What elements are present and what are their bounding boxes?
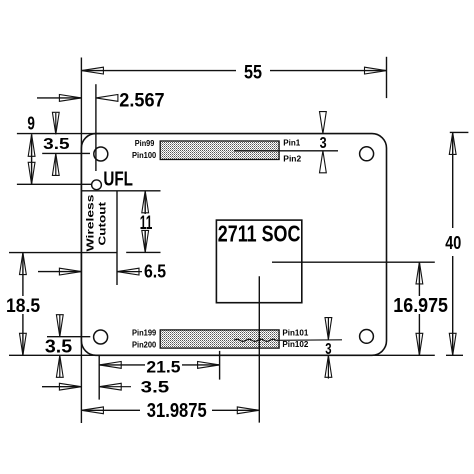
svg-text:Pin2: Pin2 [283, 154, 301, 163]
svg-text:3: 3 [325, 341, 331, 358]
dim 55 line [81, 70, 236, 72]
board bottom edge extension left [9, 354, 96, 356]
svg-text:Pin102: Pin102 [282, 340, 309, 349]
dim 16.975 line [418, 262, 420, 296]
mounting hole top-left [94, 147, 108, 161]
svg-text:Pin199: Pin199 [132, 329, 157, 338]
svg-text:18.5: 18.5 [6, 296, 40, 317]
wireless cutout top edge [81, 190, 160, 192]
svg-text:Cutout: Cutout [98, 201, 109, 245]
svg-text:3: 3 [320, 135, 327, 152]
extension line 21.5 right [219, 351, 221, 380]
dim 31.9875 line [81, 409, 140, 411]
UFL connector circle [92, 180, 102, 190]
svg-text:3.5: 3.5 [43, 136, 70, 153]
mounting hole bottom-left [94, 330, 108, 344]
SOC outline [216, 220, 301, 303]
dim 6.5 line [38, 271, 81, 273]
dim 3.5 top-left arrows [52, 112, 59, 134]
mounting hole top-right [360, 147, 374, 161]
dim 9 line [31, 134, 33, 184]
top connector strip hatched [160, 141, 279, 160]
svg-text:Wireless: Wireless [85, 194, 96, 252]
svg-text:16.975: 16.975 [393, 295, 448, 317]
dim 21.5 line [99, 364, 145, 366]
svg-text:Pin200: Pin200 [132, 340, 157, 349]
extension line 21.5 left [98, 355, 100, 399]
left extension line [80, 58, 82, 424]
svg-text:UFL: UFL [103, 169, 133, 191]
svg-text:Pin101: Pin101 [282, 328, 309, 337]
dim 40 line [452, 132, 454, 228]
board outline [81, 134, 386, 356]
right extension line 55 [386, 57, 388, 98]
mounting hole bottom-right [360, 330, 374, 344]
svg-text:2711 SOC: 2711 SOC [218, 221, 301, 247]
svg-text:40: 40 [445, 233, 461, 253]
wireless cutout label [85, 194, 96, 252]
dim 11 tick [126, 251, 160, 253]
SOC leader vertical [258, 276, 260, 422]
dim 3.5 bottom arrows [42, 386, 81, 388]
svg-text:11: 11 [140, 213, 153, 234]
board bottom edge extension right [371, 354, 435, 356]
SOC leader horizontal [272, 261, 435, 263]
wireless cutout bottom edge [9, 252, 117, 254]
bottom-left hole center line [47, 336, 90, 338]
dim 18.5 line [22, 253, 24, 296]
svg-text:21.5: 21.5 [146, 358, 180, 377]
svg-text:3.5: 3.5 [141, 378, 170, 397]
dim 40 ticks [450, 131, 469, 133]
bottom pin row leader line wavy [234, 339, 342, 341]
svg-text:6.5: 6.5 [144, 262, 166, 282]
svg-text:2.567: 2.567 [119, 90, 164, 111]
UFL center line [17, 183, 91, 185]
dim 2.567 line [37, 97, 81, 99]
top pin row leader line [234, 150, 338, 152]
extension line 2.567 [95, 84, 97, 171]
dim 3 top arrows [320, 112, 327, 134]
top-left hole center line [42, 152, 90, 154]
wireless cutout right edge [116, 191, 118, 285]
svg-text:Pin1: Pin1 [283, 138, 301, 147]
svg-text:31.9875: 31.9875 [147, 400, 207, 422]
dim 11 line [144, 191, 146, 214]
svg-text:Pin100: Pin100 [132, 151, 157, 160]
board top edge extension left [17, 133, 100, 135]
svg-text:55: 55 [244, 63, 262, 84]
dim 3 bottom arrows [327, 317, 329, 340]
dim 3.5 left-bottom arrows [59, 315, 61, 337]
svg-text:3.5: 3.5 [45, 336, 72, 356]
svg-text:9: 9 [27, 113, 35, 133]
svg-text:Pin99: Pin99 [135, 139, 155, 148]
bottom connector strip hatched [160, 330, 279, 348]
